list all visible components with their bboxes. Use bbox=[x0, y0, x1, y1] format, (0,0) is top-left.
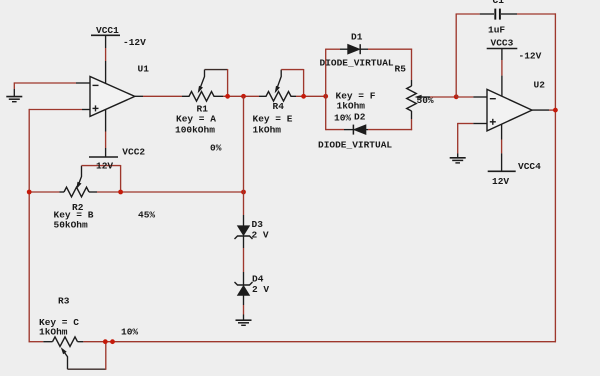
ground (U1 inverting input) bbox=[6, 97, 22, 102]
svg-text:-12V: -12V bbox=[123, 37, 146, 48]
svg-text:D3: D3 bbox=[252, 219, 264, 230]
svg-text:VCC1: VCC1 bbox=[96, 25, 119, 36]
svg-text:1kOhm: 1kOhm bbox=[253, 125, 282, 136]
svg-text:1kOhm: 1kOhm bbox=[337, 101, 366, 112]
svg-text:1uF: 1uF bbox=[488, 25, 505, 36]
node: R1 right junction bbox=[225, 94, 230, 99]
capacitor C1 bbox=[456, 9, 556, 97]
ground (D4) bbox=[236, 320, 252, 325]
svg-text:R5: R5 bbox=[395, 64, 407, 75]
svg-text:50kOhm: 50kOhm bbox=[54, 220, 89, 231]
node: U2 inverting input junction bbox=[454, 94, 459, 99]
node: R2 right junction bbox=[118, 190, 123, 195]
svg-text:10%: 10% bbox=[334, 113, 351, 124]
svg-text:2 V: 2 V bbox=[252, 284, 269, 295]
node: diode box left junction bbox=[323, 94, 328, 99]
node: R2 row to D3 branch junction bbox=[241, 190, 246, 195]
svg-text:DIODE_VIRTUAL: DIODE_VIRTUAL bbox=[318, 140, 392, 151]
potentiometer R3 bbox=[43, 337, 106, 370]
svg-text:12V: 12V bbox=[492, 176, 509, 187]
node: R2 left junction bbox=[27, 190, 32, 195]
op-amp U1 bbox=[82, 77, 143, 117]
wire: R5 wiper to U2 inverting node bbox=[430, 96, 456, 98]
node: D3 branch junction bbox=[241, 94, 246, 99]
potentiometer R1 bbox=[182, 69, 228, 101]
wire: diode box bottom side bbox=[326, 129, 412, 131]
svg-text:DIODE_VIRTUAL: DIODE_VIRTUAL bbox=[320, 58, 394, 69]
svg-text:D1: D1 bbox=[351, 32, 363, 43]
svg-text:12V: 12V bbox=[96, 161, 113, 172]
power VCC2 bbox=[89, 110, 118, 158]
wire: diode box left vertical bbox=[325, 49, 327, 131]
wire: between D3 and D4 bbox=[243, 248, 245, 272]
svg-text:VCC4: VCC4 bbox=[518, 161, 541, 172]
svg-text:Key = A: Key = A bbox=[176, 114, 216, 125]
svg-text:U1: U1 bbox=[138, 64, 150, 75]
diode D1 bbox=[348, 44, 361, 54]
wire: R4 to diode box bbox=[296, 95, 327, 97]
svg-text:1kOhm: 1kOhm bbox=[39, 327, 68, 338]
wire: diode box right vertical upper bbox=[411, 49, 413, 80]
svg-text:100kOhm: 100kOhm bbox=[175, 125, 215, 136]
svg-text:D4: D4 bbox=[252, 274, 264, 285]
svg-text:2 V: 2 V bbox=[252, 230, 269, 241]
node: R4 right junction bbox=[301, 94, 306, 99]
node: bottom rail junction bbox=[110, 339, 115, 344]
wire: U1 inverting input to ground bbox=[14, 82, 90, 96]
svg-text:10%: 10% bbox=[121, 327, 138, 338]
wire: D3/D4 branch vertical bbox=[243, 96, 245, 226]
power VCC3 bbox=[487, 49, 518, 97]
zener diode D4 bbox=[235, 282, 253, 305]
wire: U2 non-inverting input to ground bbox=[458, 123, 474, 158]
op-amp U2 bbox=[473, 89, 549, 130]
wire: junction to U2 inverting input bbox=[456, 96, 473, 98]
wire: U2 output to right vertical bbox=[549, 109, 555, 111]
node: R3 loop junction bbox=[103, 339, 108, 344]
wire: D4 to ground bbox=[243, 305, 245, 315]
svg-text:Key = E: Key = E bbox=[253, 114, 293, 125]
wire: diode box right vertical lower bbox=[411, 119, 413, 130]
wire: R1 to R4 bbox=[223, 95, 259, 97]
svg-text:D2: D2 bbox=[354, 112, 366, 123]
svg-text:C1: C1 bbox=[493, 0, 505, 6]
ground (U2 non-inverting input) bbox=[450, 158, 466, 163]
potentiometer R4 bbox=[259, 69, 304, 101]
wire: feedback right vertical (U2 output) bbox=[554, 13, 556, 342]
wire: U1 non-inverting input down left side bbox=[29, 109, 82, 342]
node: U2 output junction bbox=[553, 108, 558, 113]
zener diode D3 bbox=[235, 226, 253, 248]
potentiometer R2 bbox=[64, 165, 121, 197]
svg-text:-12V: -12V bbox=[519, 51, 542, 62]
svg-text:VCC3: VCC3 bbox=[491, 38, 514, 49]
power VCC1 bbox=[91, 35, 120, 83]
wire: diode box top side bbox=[326, 48, 412, 50]
power VCC4 bbox=[488, 124, 516, 171]
diode D2 bbox=[344, 125, 366, 135]
wire: U1 output to R1 bbox=[143, 95, 182, 97]
svg-text:R3: R3 bbox=[58, 296, 70, 307]
wire: R2 row horizontal bbox=[29, 191, 243, 193]
svg-text:0%: 0% bbox=[210, 143, 222, 154]
potentiometer R5 bbox=[407, 86, 430, 111]
svg-text:45%: 45% bbox=[138, 210, 155, 221]
svg-text:VCC2: VCC2 bbox=[122, 147, 145, 158]
svg-text:U2: U2 bbox=[534, 80, 546, 91]
svg-text:R4: R4 bbox=[273, 101, 285, 112]
wire: bottom rail bbox=[29, 341, 556, 343]
